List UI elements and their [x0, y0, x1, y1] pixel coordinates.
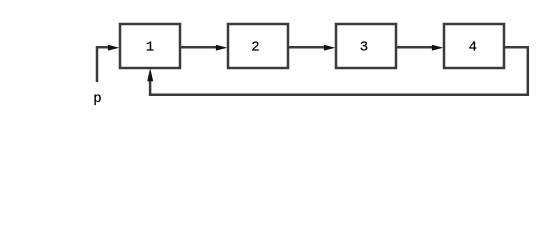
svg-text:3: 3 [360, 40, 368, 56]
svg-text:p: p [93, 91, 101, 107]
svg-text:2: 2 [251, 40, 259, 56]
svg-text:4: 4 [469, 40, 477, 56]
svg-text:1: 1 [146, 40, 154, 56]
